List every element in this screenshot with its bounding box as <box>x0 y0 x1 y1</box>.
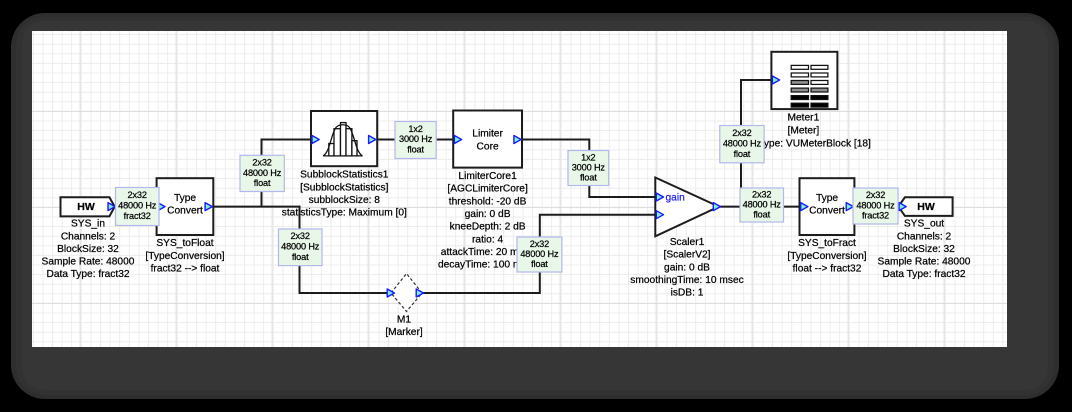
svg-text:SYS_toFract: SYS_toFract <box>798 238 856 249</box>
svg-text:Meter1: Meter1 <box>788 112 820 123</box>
svg-text:[Meter]: [Meter] <box>788 126 820 137</box>
svg-text:3000 Hz: 3000 Hz <box>572 163 606 173</box>
svg-text:float: float <box>531 259 548 269</box>
port SYS_toFract output <box>846 203 853 211</box>
svg-text:Limiter: Limiter <box>472 129 503 140</box>
svg-text:ratio: 4: ratio: 4 <box>472 234 503 245</box>
wire label 2x32 48000 Hz float to Meter1 <box>720 126 764 163</box>
label Scaler1 info <box>630 237 743 298</box>
label SYS_toFloat info <box>145 238 224 274</box>
svg-text:gain: 0 dB: gain: 0 dB <box>465 209 511 220</box>
marker M1 <box>391 274 422 312</box>
wire label 1x2 3000 Hz float after Limiter <box>568 151 609 186</box>
wire label 2x32 48000 Hz float on up branch <box>240 155 284 191</box>
wire label 2x32 48000 Hz float after M1 <box>517 237 562 272</box>
svg-text:2x32: 2x32 <box>732 128 751 138</box>
svg-text:Type: Type <box>174 193 196 204</box>
label SYS_in info <box>42 219 135 281</box>
svg-text:[Marker]: [Marker] <box>385 327 423 338</box>
svg-text:48000 Hz: 48000 Hz <box>118 200 157 210</box>
svg-text:M1: M1 <box>397 314 411 325</box>
svg-text:[TypeConversion]: [TypeConversion] <box>145 251 224 262</box>
port SubblockStatistics1 output <box>369 136 376 144</box>
port LimiterCore1 output <box>514 136 521 144</box>
svg-text:2x32: 2x32 <box>128 190 147 200</box>
wire label 2x32 48000 Hz float on down branch <box>279 229 323 266</box>
svg-text:HW: HW <box>917 201 935 213</box>
wire label 2x32 48000 Hz fract32 after SYS_in <box>116 188 160 226</box>
label M1 info <box>385 314 423 338</box>
svg-text:Core: Core <box>477 141 499 152</box>
svg-text:smoothingTime: 10 msec: smoothingTime: 10 msec <box>630 275 743 286</box>
svg-text:Convert: Convert <box>167 205 203 216</box>
port SubblockStatistics1 input <box>312 136 319 144</box>
block Scaler1 <box>655 178 719 237</box>
svg-text:Convert: Convert <box>809 205 845 216</box>
svg-text:2x32: 2x32 <box>752 190 771 200</box>
svg-text:float: float <box>734 149 751 159</box>
wire branch up to SubblockStatistics <box>262 140 313 207</box>
port SYS_out input <box>899 203 906 211</box>
HW output block SYS_out <box>898 197 952 216</box>
svg-text:Scaler1: Scaler1 <box>670 237 705 248</box>
port Scaler1 signal input <box>656 211 663 219</box>
svg-text:Sample Rate: 48000: Sample Rate: 48000 <box>42 257 135 268</box>
block LimiterCore1 <box>453 111 522 168</box>
svg-text:kneeDepth: 2 dB: kneeDepth: 2 dB <box>450 222 526 233</box>
HW input block SYS_in <box>61 197 115 216</box>
histogram icon <box>323 123 362 156</box>
label SubblockStatistics1 info <box>282 170 407 219</box>
label LimiterCore1 info <box>438 171 537 271</box>
svg-text:SYS_in: SYS_in <box>71 219 105 230</box>
block SYS_toFloat Type Convert <box>157 178 214 235</box>
svg-text:fract32: fract32 <box>862 211 889 221</box>
svg-text:48000 Hz: 48000 Hz <box>743 200 782 210</box>
svg-text:float: float <box>292 252 309 262</box>
label Meter1 info <box>732 112 871 149</box>
svg-text:Data Type: fract32: Data Type: fract32 <box>46 269 129 280</box>
svg-text:Channels: 2: Channels: 2 <box>897 231 952 242</box>
wire label 2x32 48000 Hz fract32 to SYS_out <box>853 188 898 224</box>
svg-text:gain: 0 dB: gain: 0 dB <box>664 262 710 273</box>
port Scaler1 output <box>713 203 720 211</box>
svg-text:float: float <box>753 209 770 219</box>
svg-text:1x2: 1x2 <box>581 152 595 162</box>
svg-text:gain: gain <box>666 193 685 204</box>
wire junction up to Meter1 <box>741 80 772 208</box>
port Meter1 input <box>772 76 779 84</box>
wire SubblockStatistics to LimiterCore <box>376 139 455 141</box>
svg-text:threshold: -20 dB: threshold: -20 dB <box>449 196 527 207</box>
port M1 output <box>416 289 423 297</box>
svg-text:HW: HW <box>77 201 95 213</box>
svg-text:2x32: 2x32 <box>291 231 310 241</box>
port Scaler1 gain input <box>656 193 663 201</box>
svg-text:float: float <box>580 173 597 183</box>
block SubblockStatistics1 <box>311 111 377 166</box>
wire M1 to Scaler lower input <box>423 215 656 293</box>
canvas <box>32 31 1007 347</box>
wire SYS_in to SYS_toFloat <box>114 206 159 208</box>
svg-text:[ScalerV2]: [ScalerV2] <box>664 250 711 261</box>
wire SYS_toFract to SYS_out <box>854 206 900 208</box>
svg-text:2x32: 2x32 <box>530 239 549 249</box>
label SYS_toFract info <box>787 238 866 274</box>
svg-text:fract32: fract32 <box>124 211 151 221</box>
svg-text:48000 Hz: 48000 Hz <box>856 200 895 210</box>
svg-text:subblockSize: 8: subblockSize: 8 <box>309 195 381 206</box>
svg-text:48000 Hz: 48000 Hz <box>281 242 320 252</box>
svg-text:[AGCLimiterCore]: [AGCLimiterCore] <box>447 184 528 195</box>
port LimiterCore1 input <box>454 136 461 144</box>
svg-text:Sample Rate: 48000: Sample Rate: 48000 <box>878 257 971 268</box>
svg-text:float: float <box>254 178 271 188</box>
block SYS_toFract Type Convert <box>800 178 855 235</box>
svg-text:[TypeConversion]: [TypeConversion] <box>787 251 866 262</box>
port SYS_in output <box>108 203 115 211</box>
label SYS_out info <box>878 219 971 281</box>
svg-text:fract32 --> float: fract32 --> float <box>151 263 220 274</box>
wire LimiterCore to Scaler gain input <box>521 140 656 198</box>
port SYS_toFloat output <box>205 203 212 211</box>
svg-text:SYS_toFloat: SYS_toFloat <box>156 238 213 249</box>
svg-text:LimiterCore1: LimiterCore1 <box>458 171 517 182</box>
svg-text:isDB: 1: isDB: 1 <box>671 287 704 298</box>
svg-text:1x2: 1x2 <box>408 124 422 134</box>
wire Scaler output to junction <box>720 206 742 208</box>
svg-text:Type: Type <box>816 193 838 204</box>
svg-text:2x32: 2x32 <box>866 190 885 200</box>
svg-text:SYS_out: SYS_out <box>904 219 944 230</box>
wire branch down to marker M1 <box>300 206 390 293</box>
svg-text:[SubblockStatistics]: [SubblockStatistics] <box>300 182 388 193</box>
svg-text:float: float <box>407 145 424 155</box>
wire label 2x32 48000 Hz float to SYS_toFract <box>740 188 784 222</box>
svg-text:statisticsType: Maximum [0]: statisticsType: Maximum [0] <box>282 208 407 219</box>
svg-text:2x32: 2x32 <box>252 157 271 167</box>
wire SYS_toFloat output horizontal <box>212 206 300 208</box>
svg-text:48000 Hz: 48000 Hz <box>520 249 559 259</box>
svg-text:48000 Hz: 48000 Hz <box>723 138 762 148</box>
svg-text:48000 Hz: 48000 Hz <box>243 168 282 178</box>
port M1 input <box>387 289 394 297</box>
svg-text:Data Type: fract32: Data Type: fract32 <box>882 269 965 280</box>
svg-text:SubblockStatistics1: SubblockStatistics1 <box>300 170 389 181</box>
wire junction to SYS_toFract <box>741 206 801 208</box>
svg-text:3000 Hz: 3000 Hz <box>399 134 433 144</box>
block Meter1 <box>771 52 837 109</box>
svg-text:Channels: 2: Channels: 2 <box>61 231 116 242</box>
svg-text:BlockSize: 32: BlockSize: 32 <box>57 244 119 255</box>
svg-text:float --> fract32: float --> fract32 <box>793 263 862 274</box>
wire label 1x2 3000 Hz float between SubblockStatistics and Limiter <box>395 122 436 159</box>
svg-text:BlockSize: 32: BlockSize: 32 <box>893 244 955 255</box>
meter icon bars <box>791 65 828 107</box>
port SYS_toFloat input <box>158 203 165 211</box>
port SYS_toFract input <box>801 203 808 211</box>
